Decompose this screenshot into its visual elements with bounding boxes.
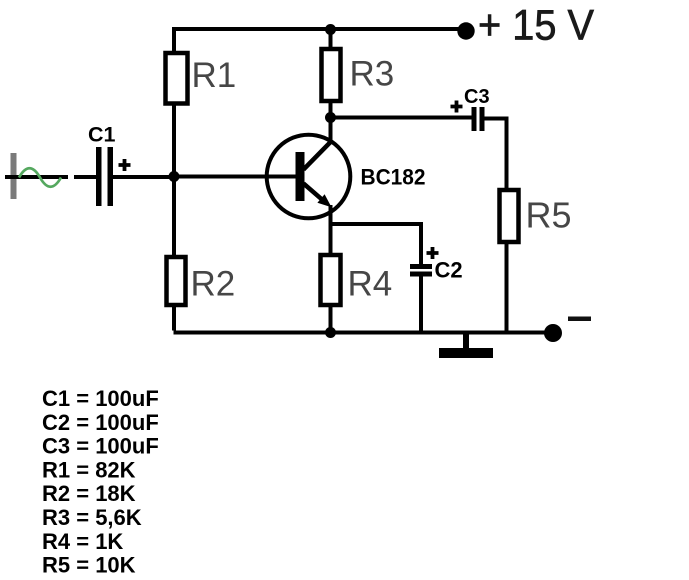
- svg-text:C2: C2: [435, 258, 463, 283]
- wire C2 bottom: [419, 277, 423, 333]
- resistor R2: [167, 257, 186, 305]
- wire R1 top: [172, 27, 176, 52]
- C3 plus sign: [451, 101, 463, 113]
- resistor R4: [321, 255, 341, 305]
- node minus terminal dot: [544, 324, 562, 342]
- transistor emitter diagonal: [304, 184, 324, 201]
- wire base: [174, 175, 296, 179]
- resistor R1: [166, 53, 188, 104]
- wire bottom rail: [174, 331, 549, 335]
- wire C1 to base node: [113, 175, 174, 179]
- input source gray tick: [11, 153, 17, 199]
- transistor emitter arrowhead: [317, 194, 331, 207]
- minus sign: [568, 317, 591, 322]
- node base junction: [169, 171, 180, 182]
- wire collector to C3: [331, 116, 472, 120]
- transistor base bar: [296, 152, 305, 201]
- svg-text:C3: C3: [464, 86, 490, 108]
- svg-text:R4 = 1K: R4 = 1K: [42, 529, 123, 554]
- wire emitter to C2: [329, 222, 421, 264]
- wire R1 bottom to R2 top: [172, 103, 176, 257]
- svg-text:R1 = 82K: R1 = 82K: [42, 457, 136, 482]
- svg-text:BC182: BC182: [361, 165, 426, 190]
- C2 plus sign: [427, 247, 439, 259]
- transistor Q1 circle: [267, 135, 351, 219]
- node R4 bottom junction: [325, 327, 336, 338]
- svg-text:R2: R2: [191, 265, 236, 304]
- svg-text:R5: R5: [526, 195, 572, 236]
- ground bar: [439, 348, 493, 358]
- wire C3 to R5: [485, 117, 507, 191]
- svg-text:R1: R1: [192, 56, 237, 95]
- svg-text:C1: C1: [88, 123, 116, 147]
- node collector junction: [325, 112, 336, 123]
- svg-text:C3 = 100uF: C3 = 100uF: [42, 434, 159, 459]
- svg-text:C2 = 100uF: C2 = 100uF: [42, 410, 159, 435]
- svg-text:R3: R3: [350, 55, 395, 94]
- transistor collector diagonal: [304, 141, 333, 170]
- svg-text:R5 = 10K: R5 = 10K: [42, 553, 136, 578]
- svg-text:R4: R4: [348, 265, 393, 304]
- parts list: [42, 386, 159, 578]
- capacitor C3: [472, 107, 485, 131]
- wire R3 top: [329, 27, 333, 48]
- resistor R5: [500, 190, 519, 242]
- svg-text:C1 = 100uF: C1 = 100uF: [42, 386, 159, 411]
- capacitor C1: [96, 147, 113, 206]
- node +15V terminal dot: [457, 22, 474, 39]
- C1 plus sign: [119, 159, 131, 171]
- ground stem: [463, 333, 469, 349]
- wire emitter to R4: [329, 205, 333, 255]
- wire top rail: [174, 27, 467, 31]
- svg-text:R2 = 18K: R2 = 18K: [42, 481, 136, 506]
- wire R2 bottom: [172, 305, 176, 331]
- input sine wave: [19, 168, 61, 187]
- resistor R3: [322, 49, 341, 101]
- svg-text:R3 = 5,6K: R3 = 5,6K: [42, 505, 142, 530]
- node R3 top junction: [325, 24, 336, 35]
- svg-text:+ 15 V: + 15 V: [478, 2, 594, 50]
- wire R5 bottom: [505, 242, 509, 332]
- wire input left: [5, 175, 97, 179]
- wire R3 bottom to collector: [329, 101, 333, 141]
- capacitor C2: [410, 264, 432, 277]
- wire R4 bottom: [329, 305, 333, 332]
